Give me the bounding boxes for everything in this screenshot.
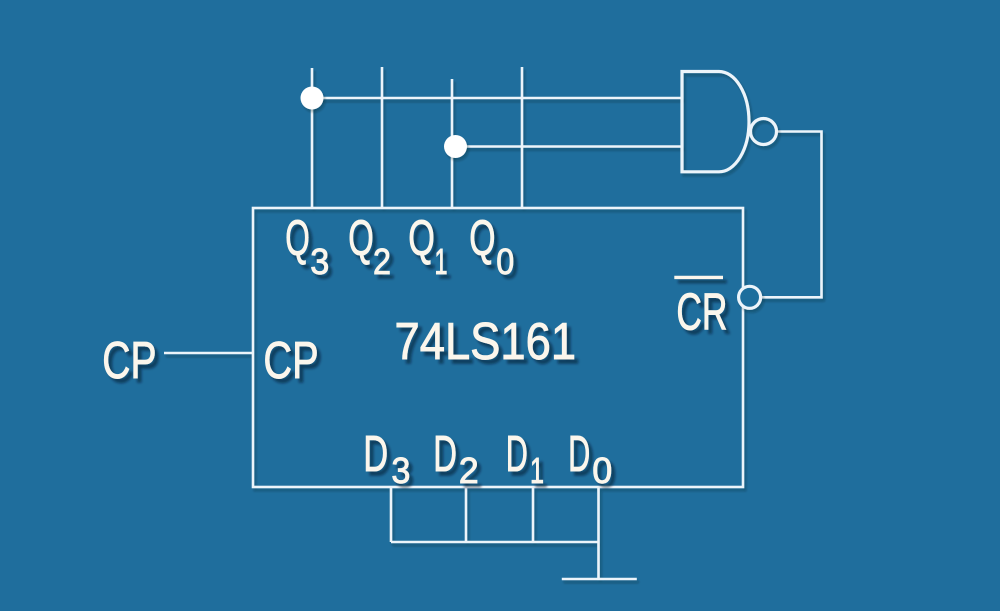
svg-text:D: D — [363, 425, 388, 482]
svg-text:Q: Q — [285, 210, 310, 266]
svg-text:2: 2 — [373, 241, 391, 282]
svg-text:CP: CP — [263, 332, 318, 390]
svg-text:CR: CR — [676, 283, 727, 341]
svg-text:0: 0 — [496, 241, 514, 282]
svg-text:3: 3 — [391, 450, 410, 491]
svg-text:CP: CP — [102, 332, 156, 390]
svg-text:74LS161: 74LS161 — [395, 313, 577, 371]
svg-text:Q: Q — [408, 210, 435, 266]
svg-text:D: D — [433, 425, 457, 482]
svg-text:2: 2 — [459, 450, 479, 491]
svg-text:Q: Q — [469, 210, 495, 266]
svg-text:1: 1 — [530, 450, 544, 491]
svg-text:0: 0 — [592, 450, 612, 491]
svg-text:1: 1 — [435, 241, 448, 282]
svg-text:D: D — [568, 425, 590, 482]
svg-text:Q: Q — [348, 210, 374, 266]
svg-text:3: 3 — [310, 241, 329, 282]
svg-text:D: D — [506, 425, 528, 482]
